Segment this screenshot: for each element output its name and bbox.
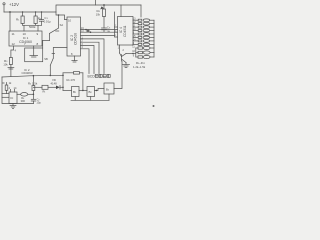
wire long mid rail bbox=[2, 75, 63, 77]
diode VD bbox=[56, 86, 60, 90]
wire B3 out to Q1 bbox=[114, 61, 122, 89]
gate B2 bbox=[87, 87, 95, 97]
svg-text:R8 470: R8 470 bbox=[67, 78, 76, 82]
svg-text:0.01μ: 0.01μ bbox=[44, 20, 51, 24]
gate B3 box bbox=[104, 83, 114, 94]
wire left vertical bbox=[2, 77, 33, 104]
wire gate bottom rail bbox=[71, 99, 109, 101]
svg-text:CD4093: CD4093 bbox=[22, 71, 33, 75]
wire B1-B2 bbox=[79, 89, 87, 91]
svg-text:+12V: +12V bbox=[9, 2, 19, 7]
wire mid vertical bbox=[115, 12, 118, 37]
svg-text:12: 12 bbox=[12, 42, 16, 46]
op-amp U3 : IC3 box bottom-left bbox=[9, 92, 17, 104]
ground (inside box) bbox=[33, 48, 35, 56]
wire bus2 to IC4 bbox=[81, 31, 118, 33]
resistor R7s row7 + LED bbox=[133, 40, 138, 42]
wire rail into IC2 pin10 bbox=[56, 12, 67, 20]
node arrow R4 top bbox=[100, 6, 104, 9]
wire rail step up bbox=[56, 5, 141, 12]
svg-text:390: 390 bbox=[21, 99, 26, 103]
wire pin12 chain bbox=[11, 46, 14, 58]
resistor R4 10k top bbox=[103, 4, 105, 6]
svg-text:CD4518: CD4518 bbox=[74, 33, 78, 45]
resistor R1 bbox=[22, 12, 24, 16]
lamp row 3 bottom right bbox=[136, 56, 138, 58]
wire LED bus right bbox=[153, 20, 155, 57]
wire from node A down to IC1 bbox=[9, 12, 11, 31]
wire BCD staircase 3 bbox=[81, 46, 95, 74]
capacitor C1 bbox=[41, 12, 43, 20]
svg-text:BCD: BCD bbox=[88, 75, 96, 79]
+12V terminal bbox=[3, 3, 5, 5]
wire BCD staircase 4 bbox=[81, 49, 90, 74]
svg-text:SA: SA bbox=[60, 23, 64, 27]
node A (junction on rail) bbox=[9, 11, 11, 13]
resistor R4s row4 + LED bbox=[133, 30, 138, 32]
svg-text:Rt: Rt bbox=[43, 90, 46, 94]
wire BCD staircase 1 bbox=[81, 39, 105, 74]
wire bus1 to IC4 bbox=[81, 29, 118, 31]
resistor R5s row5 + LED bbox=[133, 33, 138, 35]
op-amp U2 : IC2 middle counter box bbox=[67, 17, 81, 56]
lamp row 2 bottom right bbox=[136, 52, 138, 54]
wire IC3 ground bbox=[12, 104, 14, 106]
box buzzer HA bbox=[25, 48, 43, 62]
wire IC2 pin8 ground bbox=[74, 56, 76, 61]
svg-text:10k: 10k bbox=[3, 62, 8, 66]
wire stub top edge bbox=[95, 0, 97, 5]
gate B1 bbox=[72, 87, 80, 97]
capacitor C2 small bbox=[87, 29, 89, 32]
wire B1 input vertical bbox=[62, 73, 64, 91]
switch SA bbox=[58, 15, 60, 28]
svg-text:1.2k~1.5k: 1.2k~1.5k bbox=[133, 65, 146, 69]
resistor R7 bbox=[6, 83, 8, 86]
resistor R8 470 feedback bbox=[63, 72, 74, 74]
svg-text:10: 10 bbox=[68, 19, 72, 23]
op-amp U1 : IC1 CD4060 box bbox=[9, 31, 42, 46]
svg-text:4148: 4148 bbox=[51, 81, 58, 85]
wire pin8 down bbox=[33, 46, 35, 48]
resistor R6s row6 + LED bbox=[133, 36, 138, 38]
resistor R5 1.5k bbox=[32, 76, 34, 86]
svg-text:11: 11 bbox=[12, 32, 15, 36]
node dots on rail bbox=[22, 11, 23, 12]
wire lamp left bus bbox=[135, 48, 137, 57]
resistor R3 bbox=[9, 58, 12, 65]
svg-text:1μ: 1μ bbox=[107, 29, 110, 33]
resistor R1s row1 + LED bbox=[133, 19, 138, 21]
svg-text:CD4511: CD4511 bbox=[123, 25, 127, 37]
svg-text:SB: SB bbox=[44, 57, 48, 61]
svg-text:10μ: 10μ bbox=[36, 101, 41, 105]
wire stub to pin 9 bbox=[37, 25, 39, 31]
speck bottom right bbox=[153, 105, 155, 107]
resistor R6 390 oval bbox=[17, 93, 21, 95]
wire RC bottom bbox=[23, 24, 42, 26]
resistor R2s row2 + LED bbox=[133, 23, 138, 25]
wire top rail left (y=12) bbox=[4, 11, 56, 13]
wire B2 out bbox=[95, 89, 105, 91]
resistor R8s row8 + LED bbox=[133, 43, 138, 45]
op-amp U4 : IC4 CD4511 box bbox=[118, 17, 134, 46]
wire BCD staircase 2 bbox=[81, 42, 100, 73]
resistor R2 bbox=[35, 12, 37, 16]
lamp row 1 bottom right bbox=[136, 47, 138, 49]
svg-text:R5 1.5k: R5 1.5k bbox=[28, 82, 38, 86]
resistor R3s row3 + LED bbox=[133, 26, 138, 28]
wire rail right corner down bbox=[140, 5, 142, 17]
capacitor C3 bbox=[102, 27, 107, 29]
svg-text:10k: 10k bbox=[96, 12, 101, 16]
capacitor C2 10u bbox=[31, 98, 35, 100]
ground below Q1 bbox=[125, 63, 127, 65]
wire stub to pin 10 bbox=[23, 25, 25, 31]
ground below R3 bbox=[10, 65, 12, 77]
diode VD 4148 branch bbox=[33, 86, 42, 88]
